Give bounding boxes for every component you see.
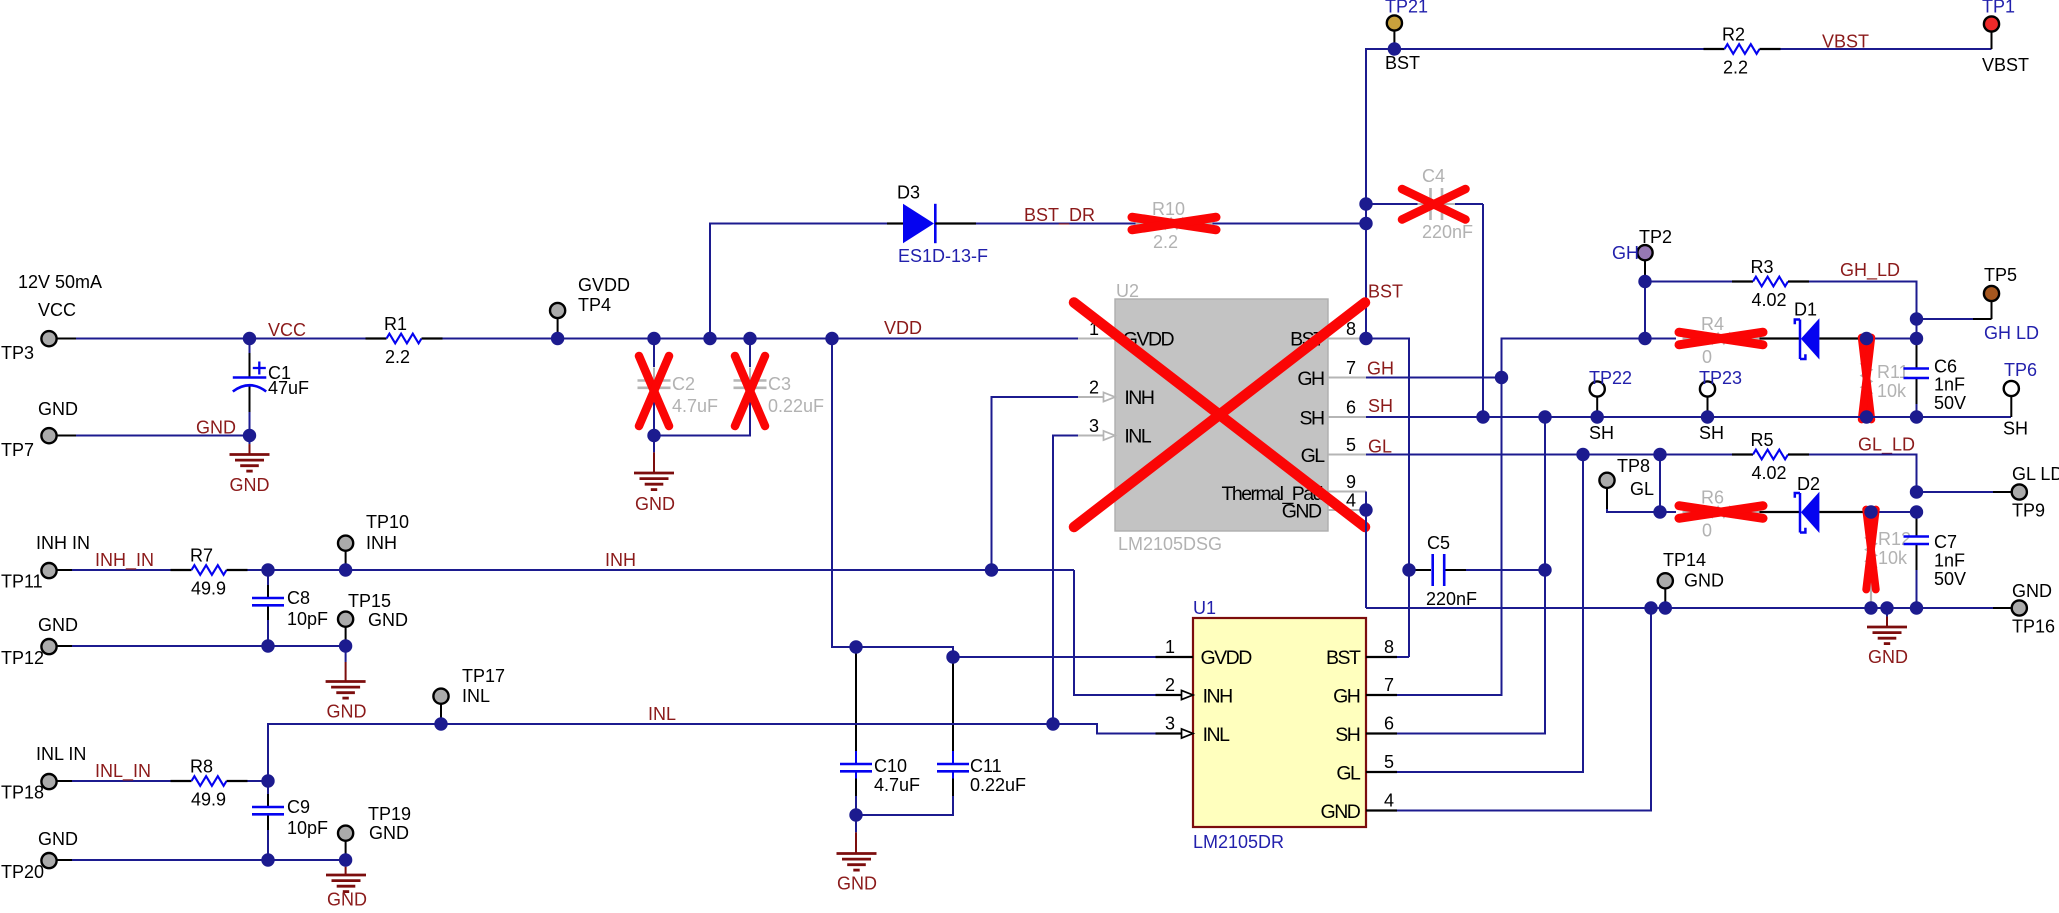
svg-text:TP9: TP9: [2012, 501, 2045, 521]
capacitor C5 leads: [1409, 569, 1431, 571]
svg-text:GL: GL: [1301, 445, 1326, 467]
wire U2 INH drop: [992, 397, 1079, 570]
wire U1 pin6 to SH: [1397, 417, 1545, 734]
wire U2 GND down: [1365, 510, 1367, 608]
svg-text:8: 8: [1384, 637, 1394, 657]
wire R6 row left: [1660, 511, 1676, 513]
resistor R8: [171, 776, 248, 786]
test point TP22 pad: [1590, 381, 1605, 396]
wire C2 top lead: [653, 339, 655, 368]
svg-text:GND: GND: [369, 823, 409, 843]
svg-text:TP18: TP18: [1, 783, 44, 803]
wire BST rail top: [1366, 48, 1704, 50]
test point TP18 stub: [57, 780, 72, 782]
wire GVDD row to C11: [856, 647, 953, 657]
test point TP12 pad: [41, 639, 56, 654]
junction BST bus/D3 row: [1359, 217, 1372, 230]
capacitor C6: [1904, 367, 1930, 370]
svg-text:C3: C3: [768, 374, 791, 394]
U2 pin 6 stub: [1328, 416, 1366, 418]
junction GND symbol: [1880, 601, 1893, 614]
svg-text:GND: GND: [368, 610, 408, 630]
junction GL/U1 pin5 riser: [1576, 448, 1589, 461]
U2 pin 4 stub: [1328, 509, 1366, 511]
capacitor C1 top plate: [233, 376, 266, 379]
wire TP20 GND row: [72, 859, 346, 861]
capacitor C11 plate leads: [952, 751, 954, 764]
svg-text:R8: R8: [190, 757, 213, 777]
test point TP15 pad: [338, 612, 353, 627]
U1 pin 6 stub: [1366, 732, 1397, 734]
ground stem below TP19: [345, 860, 347, 875]
wire TP5 line: [1917, 318, 1974, 320]
junction C2/C3 ground: [647, 429, 660, 442]
resistor R11 leads: [1866, 339, 1868, 345]
svg-text:GL LD: GL LD: [2012, 464, 2059, 484]
svg-text:SH: SH: [1589, 423, 1614, 443]
svg-text:C9: C9: [287, 797, 310, 817]
junction INH/TP10: [339, 563, 352, 576]
wire U1 pin7 to GH: [1397, 378, 1502, 696]
svg-text:TP2: TP2: [1639, 227, 1672, 247]
svg-text:C11: C11: [970, 756, 1002, 776]
capacitor C4: [1418, 188, 1456, 220]
svg-text:GH: GH: [1612, 243, 1639, 263]
svg-text:LM2105DSG: LM2105DSG: [1118, 534, 1222, 554]
test point TP17 pad: [433, 689, 448, 704]
resistor R2: [1704, 44, 1781, 54]
test point TP10 pad: [338, 536, 353, 551]
test point TP15 stem: [345, 627, 347, 646]
test point TP3 stub: [57, 338, 76, 340]
junction C8 bottom: [261, 639, 274, 652]
junction C7 bottom: [1910, 601, 1923, 614]
junction U2 pin4: [1359, 503, 1372, 516]
U2 pin 8 stub: [1328, 338, 1366, 340]
U1 pin 3 input arrow: [1182, 729, 1194, 738]
svg-text:TP7: TP7: [1, 440, 34, 460]
test point TP10 stem: [345, 551, 347, 570]
svg-text:2: 2: [1089, 378, 1099, 398]
junction GH/D1 row: [1638, 332, 1651, 345]
svg-text:49.9: 49.9: [191, 790, 226, 810]
svg-text:GND: GND: [1321, 801, 1361, 823]
test point TP2 stem: [1644, 260, 1646, 281]
svg-text:GL: GL: [1630, 479, 1654, 499]
svg-text:GND: GND: [837, 874, 877, 894]
svg-text:R7: R7: [190, 546, 213, 566]
wire TP12 GND row: [72, 645, 346, 647]
IC U1 body: [1193, 618, 1366, 827]
svg-text:BST_DR: BST_DR: [1024, 205, 1095, 226]
svg-text:INL IN: INL IN: [36, 744, 86, 764]
junction GH riser: [1495, 371, 1508, 384]
junction INL/U2 pin3: [1046, 717, 1059, 730]
wire C3 bottom lead: [654, 402, 750, 436]
not-populated X over resistor R10: [1132, 217, 1216, 230]
capacitor C11 leads: [952, 657, 954, 751]
svg-text:R6: R6: [1701, 488, 1724, 508]
junction SH/R11 bottom: [1860, 410, 1873, 423]
svg-text:TP19: TP19: [368, 804, 411, 824]
junction TP19: [339, 853, 352, 866]
capacitor C6 leads: [1916, 341, 1918, 369]
svg-text:GND: GND: [1868, 647, 1908, 667]
wire INL to U1 pin3: [1053, 724, 1156, 734]
capacitor C8: [252, 597, 284, 600]
resistor R6: [1683, 507, 1760, 517]
capacitor C1 plus sign: [253, 367, 266, 369]
wire U2 pin9 to pin4: [1365, 492, 1367, 511]
not-populated X over resistor R12: [1866, 510, 1876, 590]
wire U1 pin8 lead: [1397, 656, 1409, 658]
wire C1 top lead: [249, 339, 251, 354]
svg-text:TP5: TP5: [1984, 265, 2017, 285]
junction C7 top: [1910, 505, 1923, 518]
svg-text:INL: INL: [1124, 426, 1152, 448]
test point TP6 pad: [2004, 381, 2019, 396]
junction INH/U2 pin2: [985, 563, 998, 576]
test point TP21 pad: [1387, 15, 1402, 30]
capacitor C7: [1904, 535, 1930, 538]
wire SH row: [1366, 416, 2011, 418]
wire C2 bottom lead: [653, 402, 655, 436]
IC U2 body: [1115, 299, 1328, 531]
test point TP1 stem: [1991, 32, 1993, 49]
ground symbol below C1: [230, 455, 270, 472]
svg-text:TP1: TP1: [1982, 0, 2015, 17]
svg-text:U1: U1: [1193, 598, 1216, 618]
wire VBST rail: [1781, 48, 1992, 50]
svg-text:R4: R4: [1701, 314, 1724, 334]
svg-text:LM2105DR: LM2105DR: [1193, 832, 1284, 852]
wire C1 bottom lead: [249, 412, 251, 435]
junction TP22: [1591, 410, 1604, 423]
svg-text:49.9: 49.9: [191, 579, 226, 599]
test point TP8 stem: [1606, 488, 1608, 509]
diode D3 cathode stub: [935, 222, 976, 224]
test point TP23 pad: [1700, 381, 1715, 396]
junction VDD/C10-C11 branch: [825, 332, 838, 345]
junction C10 top: [849, 640, 862, 653]
svg-text:GVDD: GVDD: [1201, 647, 1253, 669]
test point TP5 pad: [1984, 286, 1999, 301]
test point TP20 pad: [41, 853, 56, 868]
junction D2/R12: [1864, 505, 1877, 518]
capacitor C9: [252, 806, 284, 809]
diode D1 anode wire: [1760, 337, 1801, 339]
svg-text:GND: GND: [38, 615, 78, 635]
ground stem below C1: [249, 436, 251, 455]
U2 pin 3 stub: [1078, 435, 1106, 437]
svg-text:TP23: TP23: [1699, 368, 1742, 388]
junction VCC/C1: [243, 332, 256, 345]
test point TP23 stem: [1707, 397, 1709, 417]
test point TP5 stub: [1973, 318, 1992, 320]
junction TP8/R6 row: [1653, 505, 1666, 518]
wire GVDD to U1 pin1: [953, 656, 1156, 658]
wire GH_LD left: [1645, 281, 1732, 283]
svg-text:4: 4: [1384, 791, 1394, 811]
svg-text:GND: GND: [2012, 581, 2052, 601]
test point TP18 pad: [41, 774, 56, 789]
wire C3 top lead: [749, 339, 751, 368]
test point TP8 pad: [1599, 473, 1614, 488]
capacitor C1 curved plate: [233, 385, 266, 391]
svg-text:SH: SH: [1699, 423, 1724, 443]
svg-text:TP16: TP16: [2012, 617, 2055, 637]
wire R8 out: [248, 780, 269, 782]
svg-text:4.7uF: 4.7uF: [874, 775, 920, 795]
U2 pin 2 stub: [1078, 396, 1106, 398]
svg-text:R3: R3: [1751, 257, 1774, 277]
wire C4 left lead: [1366, 203, 1418, 205]
svg-text:TP21: TP21: [1385, 0, 1428, 17]
junction GND/C1 bottom: [243, 429, 256, 442]
junction TP9 line: [1910, 485, 1923, 498]
svg-text:1: 1: [1165, 637, 1175, 657]
junction C6 top: [1910, 332, 1923, 345]
svg-text:TP4: TP4: [578, 295, 611, 315]
svg-text:220nF: 220nF: [1426, 589, 1477, 609]
wire C11 bottom: [856, 796, 953, 815]
svg-text:SH: SH: [1368, 396, 1393, 416]
test point TP11 pad: [41, 563, 56, 578]
test point TP19 stem: [345, 841, 347, 860]
svg-text:GL: GL: [1336, 763, 1361, 785]
ground stem right: [1886, 608, 1888, 627]
ground symbol right: [1867, 627, 1907, 644]
capacitor C5: [1431, 554, 1434, 586]
test point TP17 stem: [440, 704, 442, 724]
wire GND row: [1366, 607, 1993, 609]
svg-text:GND: GND: [38, 399, 78, 419]
svg-text:4.02: 4.02: [1752, 290, 1787, 310]
svg-text:C6: C6: [1934, 357, 1957, 377]
junction INL/TP17: [434, 717, 447, 730]
capacitor C3: [734, 368, 767, 401]
svg-text:INH: INH: [1203, 686, 1233, 708]
svg-text:3: 3: [1089, 416, 1099, 436]
wire INH_IN: [72, 569, 171, 571]
ground symbol below C10: [837, 854, 877, 871]
capacitor C10: [840, 763, 872, 766]
test point TP2 pad: [1637, 245, 1652, 260]
svg-text:R1: R1: [384, 314, 407, 334]
svg-text:TP20: TP20: [1, 862, 44, 882]
svg-text:D1: D1: [1794, 300, 1817, 320]
diode D2 anode wire: [1760, 511, 1801, 513]
diode D1 schottky: [1801, 318, 1820, 359]
U2 pin 7 stub: [1328, 377, 1366, 379]
test point TP9 pad: [2012, 484, 2027, 499]
junction SH/C4 branch: [1476, 410, 1489, 423]
svg-text:10k: 10k: [1877, 381, 1907, 401]
svg-text:D2: D2: [1797, 474, 1820, 494]
resistor R4: [1683, 334, 1760, 344]
test point TP6 stem: [2010, 396, 2012, 417]
svg-text:0.22uF: 0.22uF: [768, 396, 824, 416]
junction TP21/BST: [1388, 42, 1401, 55]
capacitor C1 leads: [249, 353, 251, 378]
ground stem below TP15: [345, 646, 347, 682]
not-populated X over capacitor C3: [735, 356, 765, 426]
ground symbol below C2: [634, 473, 674, 490]
svg-text:INL: INL: [1203, 724, 1231, 746]
U1 pin 3 stub: [1156, 732, 1183, 734]
svg-text:50V: 50V: [1934, 393, 1966, 413]
U2 pin 5 stub: [1328, 454, 1366, 456]
not-populated X over resistor R11: [1862, 338, 1872, 420]
wire TP9 line: [1917, 491, 1994, 493]
svg-text:3: 3: [1165, 714, 1175, 734]
resistor R7: [171, 565, 248, 575]
wire BST to U1 pin8: [1366, 339, 1409, 658]
svg-text:GL_LD: GL_LD: [1858, 435, 1915, 456]
svg-text:9: 9: [1346, 472, 1356, 492]
junction TP15: [339, 639, 352, 652]
svg-text:1nF: 1nF: [1934, 375, 1965, 395]
test point TP4 pad: [550, 303, 565, 318]
svg-text:0: 0: [1702, 521, 1712, 541]
test point TP12 stub: [57, 645, 72, 647]
svg-text:TP10: TP10: [366, 512, 409, 532]
svg-text:1nF: 1nF: [1934, 551, 1965, 571]
resistor R3: [1732, 277, 1809, 287]
svg-text:R2: R2: [1722, 25, 1745, 45]
test point TP3 pad: [41, 331, 56, 346]
U2 pin 2 input arrow: [1104, 392, 1116, 401]
svg-text:R12: R12: [1878, 529, 1911, 549]
svg-text:12V 50mA: 12V 50mA: [18, 272, 102, 292]
test point TP19 pad: [338, 826, 353, 841]
svg-text:5: 5: [1346, 435, 1356, 455]
junction GL/TP8 branch: [1653, 448, 1666, 461]
svg-text:GND: GND: [635, 494, 675, 514]
svg-text:INH IN: INH IN: [36, 533, 90, 553]
U1 pin 5 stub: [1366, 771, 1397, 773]
wire U2 INL drop: [1053, 436, 1078, 725]
svg-text:VBST: VBST: [1982, 55, 2029, 75]
svg-text:INH: INH: [366, 533, 397, 553]
svg-text:220nF: 220nF: [1422, 222, 1473, 242]
wire INL_IN: [72, 780, 171, 782]
test point TP14 pad: [1658, 573, 1673, 588]
svg-text:TP11: TP11: [1, 572, 43, 592]
svg-text:VDD: VDD: [884, 318, 922, 338]
resistor R5: [1732, 450, 1809, 460]
svg-text:C10: C10: [874, 756, 907, 776]
U2 pin 9 stub: [1328, 491, 1366, 493]
svg-text:VCC: VCC: [268, 320, 306, 340]
wire GH_LD corner: [1809, 282, 1917, 342]
test point TP4 stem: [557, 318, 559, 338]
wire INH to U1 pin2: [1074, 570, 1156, 695]
ground symbol below TP15: [326, 682, 366, 699]
svg-text:GH: GH: [1297, 368, 1324, 390]
capacitor C10 plate leads: [855, 751, 857, 764]
junction R12 bottom: [1864, 601, 1877, 614]
test point TP22 stem: [1596, 397, 1598, 417]
wire C10 bottom: [855, 796, 857, 815]
svg-text:ES1D-13-F: ES1D-13-F: [898, 246, 988, 266]
test point TP5 stem: [1991, 301, 1993, 319]
diode D1 cathode wire: [1819, 337, 1866, 339]
svg-text:U2: U2: [1116, 281, 1139, 301]
svg-text:2: 2: [1165, 675, 1175, 695]
svg-text:0.22uF: 0.22uF: [970, 775, 1026, 795]
U1 pin 7 stub: [1366, 694, 1397, 696]
svg-text:2.2: 2.2: [1723, 58, 1748, 78]
U1 pin 1 stub: [1156, 656, 1194, 658]
wire GL row: [1366, 454, 1732, 456]
wire GH row to R4: [1645, 338, 1676, 340]
svg-text:GND: GND: [1282, 501, 1322, 523]
capacitor C7 leads: [1916, 512, 1918, 537]
svg-text:C4: C4: [1422, 166, 1445, 186]
svg-text:TP15: TP15: [348, 591, 391, 611]
junction TP23: [1701, 410, 1714, 423]
test point TP7 pad: [41, 428, 56, 443]
junction U2 BST pin: [1359, 332, 1372, 345]
wire C4 to SH net: [1482, 204, 1484, 417]
svg-text:GND: GND: [230, 475, 270, 495]
junction VDD/C2: [647, 332, 660, 345]
wire TP8 drop: [1659, 455, 1661, 513]
wire GND from TP7: [76, 435, 250, 437]
U1 pin 4 stub: [1366, 809, 1397, 811]
svg-text:INL_IN: INL_IN: [95, 761, 151, 782]
svg-text:INH_IN: INH_IN: [95, 550, 154, 571]
svg-text:10pF: 10pF: [287, 818, 328, 838]
wire VCC from TP3: [76, 338, 366, 340]
capacitor C11: [937, 763, 969, 766]
svg-text:GH LD: GH LD: [1984, 323, 2039, 343]
wire C5 right: [1466, 569, 1545, 571]
wire U1 pin5 to GL: [1397, 455, 1583, 773]
test point TP14 stem: [1664, 588, 1666, 608]
not-populated X over capacitor C4: [1402, 189, 1466, 220]
wire GH from U2 pin7: [1366, 377, 1502, 379]
svg-text:TP12: TP12: [1, 648, 44, 668]
svg-text:C5: C5: [1427, 533, 1450, 553]
svg-text:6: 6: [1384, 714, 1394, 734]
svg-text:GH: GH: [1333, 686, 1360, 708]
wire D2 row to C7: [1871, 511, 1917, 513]
svg-text:10pF: 10pF: [287, 609, 328, 629]
capacitor C8 leads: [267, 570, 269, 585]
wire C6 bottom lead: [1916, 404, 1918, 417]
svg-text:C7: C7: [1934, 532, 1957, 552]
capacitor C2: [638, 368, 671, 401]
svg-text:TP22: TP22: [1589, 368, 1632, 388]
not-populated X over resistor R4: [1679, 332, 1763, 345]
test point TP11 stub: [57, 569, 72, 571]
wire INH: [248, 569, 1075, 571]
wire GL_LD corner: [1809, 455, 1917, 493]
wire GH riser: [1502, 339, 1646, 378]
wire BST_DR: [976, 223, 1366, 225]
svg-text:INH: INH: [605, 550, 636, 570]
junction TP2/GH_LD: [1638, 275, 1651, 288]
wire TP2 to D1 row: [1644, 282, 1646, 339]
test point TP1 pad: [1984, 16, 1999, 31]
svg-text:INL: INL: [648, 704, 676, 724]
test point TP9 stub: [1993, 491, 2012, 493]
svg-text:R5: R5: [1751, 430, 1774, 450]
resistor R1: [366, 334, 443, 344]
junction C10/C11 ground: [849, 808, 862, 821]
